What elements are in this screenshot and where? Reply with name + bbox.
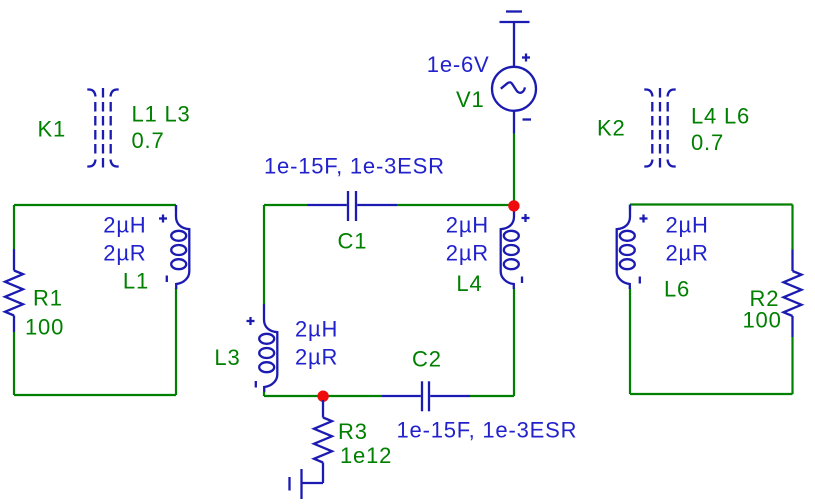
coupling K2 [644,88,675,168]
svg-text:L4: L4 [456,271,482,296]
svg-text:1e-15F, 1e-3ESR: 1e-15F, 1e-3ESR [264,154,445,179]
wire right loop bottom [630,393,793,395]
coupling K1 [87,88,118,168]
wire middle loop right [513,288,515,396]
wire middle loop bottom right [470,395,514,397]
svg-text:2µR: 2µR [666,241,709,266]
svg-text:2µH: 2µH [446,213,489,238]
wire left loop bottom [14,394,176,396]
svg-text:C2: C2 [412,347,442,372]
svg-text:L3: L3 [214,345,240,370]
wire V1 to node (514,205) [513,134,515,202]
wire right loop left lower [629,288,631,394]
wire left loop right upper [175,205,177,210]
node junction top (514,205) [508,200,519,211]
svg-text:L6: L6 [664,277,690,302]
svg-text:100: 100 [743,308,782,333]
wire right loop top [630,203,793,205]
wire middle loop top right [397,204,514,206]
svg-text:0.7: 0.7 [132,128,165,153]
wire right loop left upper [629,205,631,211]
wire left loop top [14,204,176,206]
svg-text:1e12: 1e12 [340,443,392,468]
node junction bottom (323,396) [317,391,328,402]
svg-text:1e-15F, 1e-3ESR: 1e-15F, 1e-3ESR [397,418,578,443]
capacitor C2 [382,381,470,411]
ground (bottom, at R3) [290,469,324,499]
svg-text:2µR: 2µR [295,345,338,370]
ground (top, above V1) [500,12,530,68]
resistor R1 [5,249,23,332]
svg-text:K2: K2 [597,116,626,141]
inductor L3 [247,304,278,392]
svg-text:100: 100 [25,315,64,340]
wire left loop left lower [13,332,15,395]
svg-text:R1: R1 [33,286,63,311]
wire middle loop left lower [263,392,265,396]
svg-text:1e-6V: 1e-6V [427,52,490,77]
inductor L4 [501,205,530,289]
svg-text:K1: K1 [38,117,67,142]
wire middle loop top left [264,204,308,206]
inductor L1 [159,205,189,289]
wire middle loop bottom left [264,395,382,397]
wire left loop right lower [175,288,177,395]
svg-text:V1: V1 [456,87,485,112]
svg-text:2µH: 2µH [295,317,338,342]
svg-text:L1 L3: L1 L3 [132,102,191,127]
svg-text:2µR: 2µR [446,241,489,266]
svg-text:2µH: 2µH [666,213,709,238]
resistor R3 [314,400,332,483]
svg-text:L1: L1 [123,269,149,294]
voltage source V1 [492,54,536,134]
svg-text:2µR: 2µR [103,241,146,266]
wire right loop right lower [791,337,793,394]
capacitor C1 [308,191,398,221]
wire right loop right upper [791,205,793,250]
resistor R2 [784,250,802,338]
svg-text:2µH: 2µH [103,213,146,238]
svg-text:L4 L6: L4 L6 [691,104,750,129]
svg-text:C1: C1 [338,229,368,254]
inductor L6 [617,205,648,290]
wire left loop left upper [13,205,15,249]
svg-text:R3: R3 [338,419,368,444]
svg-text:0.7: 0.7 [691,130,724,155]
wire middle loop left upper [263,205,265,304]
